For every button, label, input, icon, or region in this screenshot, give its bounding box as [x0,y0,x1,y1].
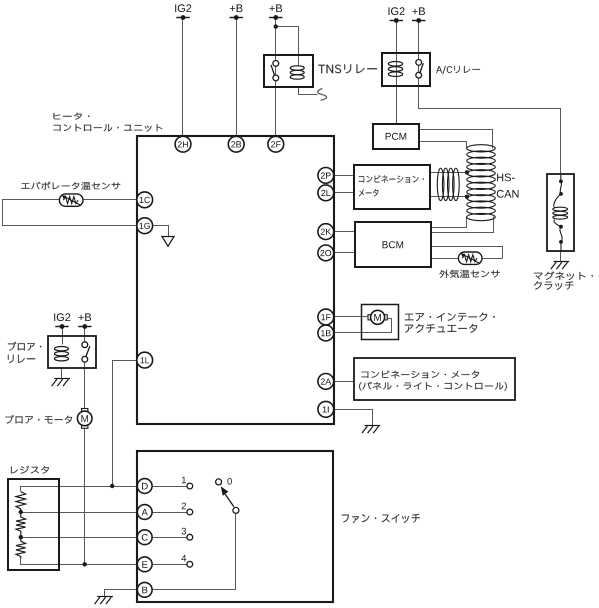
contact 0 [216,479,222,485]
magnet clutch coil [553,175,568,252]
label air intake actuator line1 [405,313,495,322]
A/C relay box [382,53,430,86]
wire TNS coil to tail lamp circuit [299,88,318,95]
pin 2O [318,245,334,261]
wire ambient temp sensor to BCM (return) [431,258,503,260]
pin 1B [318,325,334,341]
label heater control unit line2 [54,124,163,132]
junction HS-CAN CAN-H [465,170,469,174]
ambient temp sensor (thermistor) [458,252,482,264]
pin 1I [318,401,334,417]
label TNS relay [318,64,377,73]
wire IG2 to blower relay coil [62,327,64,345]
wire resistor bottom to fan switch E row [21,559,137,565]
junction HS-CAN CAN-L [465,195,469,199]
pin 1G [137,218,153,234]
wire fan switch E to contact 4 [153,564,187,566]
wire +B to blower relay switch [84,327,86,342]
label magnet clutch line2 [534,281,574,290]
wire combination meter CAN-H [431,172,467,174]
label BCM [383,241,404,248]
terminal IG2 (blower relay) [54,313,70,329]
label contact 1 [182,477,186,484]
pin 1F [318,309,334,325]
junction resistor tap2 [19,535,23,539]
junction resistor tap1 [19,510,23,514]
PCM box [373,124,419,149]
BCM box [355,222,431,267]
wire +B to TNS relay switch and pin 2F [275,18,277,137]
wire PCM CAN-L to HS-CAN bus [419,142,467,149]
wire fan switch D to contact 1 [153,486,187,488]
wire fan switch A to contact 2 [153,512,187,514]
wire BCM to ambient temp sensor (outbound) [431,247,503,259]
label combination meter line2 [359,189,379,196]
pin fan switch E [137,557,152,572]
wire +B branch to TNS relay coil [276,27,299,67]
label contact 0 [227,478,232,485]
evaporator temp sensor (thermistor) [59,194,83,206]
ground magnet clutch [551,262,569,270]
HS-CAN bus coil [467,145,496,221]
wire pin 2O to BCM [334,252,355,254]
wire A/C relay switch to magnet clutch [419,87,561,175]
wire pin 1B to air intake actuator motor [334,319,392,333]
pin 2L [318,185,334,201]
combination meter box [354,165,430,209]
terminal +B (blower relay) [78,313,91,329]
pin fan switch B [137,582,152,597]
pin fan switch A [137,505,152,520]
blower relay coil [55,347,69,361]
contact 1 [187,483,193,489]
wire resistor top to fan switch D row [21,487,137,492]
label PCM [386,133,407,140]
pin 2B [228,136,244,152]
terminal IG2 (A/C relay) [389,7,405,23]
continuation squiggle TNS [318,89,327,101]
contact 3 [187,534,193,540]
contact 4 [187,561,193,567]
resistor block box [8,479,59,570]
wire pin 2K to BCM [334,231,355,233]
A/C relay coil [388,62,402,77]
ground pin 1I [362,426,380,434]
blower relay box [48,336,96,368]
label blower relay line1 [8,342,41,351]
pin 2P [318,168,334,184]
wire blower motor to fan switch E row [84,429,86,565]
wire fan switch B to ground [105,590,137,597]
pin 2H [175,136,191,152]
pin 1C [137,192,153,208]
blower relay switch [82,342,90,362]
wire IG2 to pin 2H [182,18,184,137]
junction 1L wire / D row [110,484,114,488]
resistor R3 [16,537,26,558]
wire pin 1G to internal shield triangle [153,226,169,237]
wire wiper to B row [153,514,236,590]
combination meter panel-light box [354,358,515,400]
fan switch box [137,451,333,602]
wire blower relay switch to blower motor [84,363,86,411]
contact 2 [187,509,193,515]
label magnet clutch line1 [534,272,593,281]
pin fan switch D [137,479,152,494]
wire evaporator sensor to pin 1C [3,200,137,226]
terminal IG2 (heater) [175,4,191,20]
terminal +B (heater) [230,4,243,20]
wire HS-CAN bus to BCM CAN-H [431,217,467,228]
wire pin 2A to combination meter (panel light) [334,381,354,383]
pin 2K [318,224,334,240]
label HS-CAN [497,174,519,198]
terminal +B (A/C relay) [412,7,425,23]
magnet clutch box [547,174,574,251]
label contact 2 [182,503,186,510]
ground blower relay [52,379,70,387]
resistor R2 [16,512,26,537]
wire IG2 to A/C relay coil and PCM [396,21,398,125]
label fan switch [342,514,420,523]
wire +B to A/C relay switch [418,21,420,87]
wire combination meter CAN-L [431,196,467,198]
wire PCM CAN-H to HS-CAN bus [419,130,493,149]
pin 2A [318,374,334,390]
wire HS-CAN bus to BCM CAN-L [431,217,494,233]
resistor R1 [16,492,26,512]
pin 1L [137,352,153,368]
wire blower relay coil to ground [61,369,63,379]
label heater control unit line1 [54,113,90,120]
label air intake actuator line2 [405,324,477,333]
label evaporator temp sensor [21,182,120,190]
label panel light meter line1 [361,371,479,379]
wire magnet clutch to ground [560,251,562,262]
A/C relay switch [416,60,423,79]
label ambient temp sensor [439,270,499,278]
label contact 3 [182,528,187,535]
label resistor block [11,466,49,474]
label A/C relay [436,66,480,74]
TNS relay switch [271,61,279,81]
junction blower motor wire / E row [83,562,87,566]
TNS relay box [264,55,313,87]
ground fan switch B [95,597,113,605]
twisted pair combination meter to HS-CAN [437,168,459,200]
wire pin 2L to combination meter [334,192,355,194]
wire resistor tap2 to fan switch C row [21,537,137,539]
terminal +B (TNS) [269,4,282,20]
wire pin 2P to combination meter [334,175,355,177]
label blower relay line2 [8,355,35,363]
wire pin 1F to air intake actuator motor [334,316,368,318]
label combination meter line1 [359,175,424,183]
shield triangle at 1G [162,237,174,247]
wire +B to pin 2B [236,18,238,137]
wire fan switch C to contact 3 [153,537,187,539]
pin fan switch C [137,530,152,545]
heater control unit box [137,136,334,424]
TNS relay coil [290,66,304,79]
wire pin 1L to fan switch D row [113,361,137,487]
wire pin 1I to ground [334,410,373,426]
wire resistor tap1 to fan switch A row [21,512,137,514]
junction +B/TNS coil branch [274,24,278,28]
air intake actuator motor [368,310,387,324]
pin 2F [268,136,284,152]
fan switch wiper [221,486,239,513]
blower motor [77,409,92,429]
label panel light meter line2 [359,382,507,391]
label contact 4 [181,555,186,562]
air intake actuator box [362,305,399,340]
label blower motor [5,415,72,424]
